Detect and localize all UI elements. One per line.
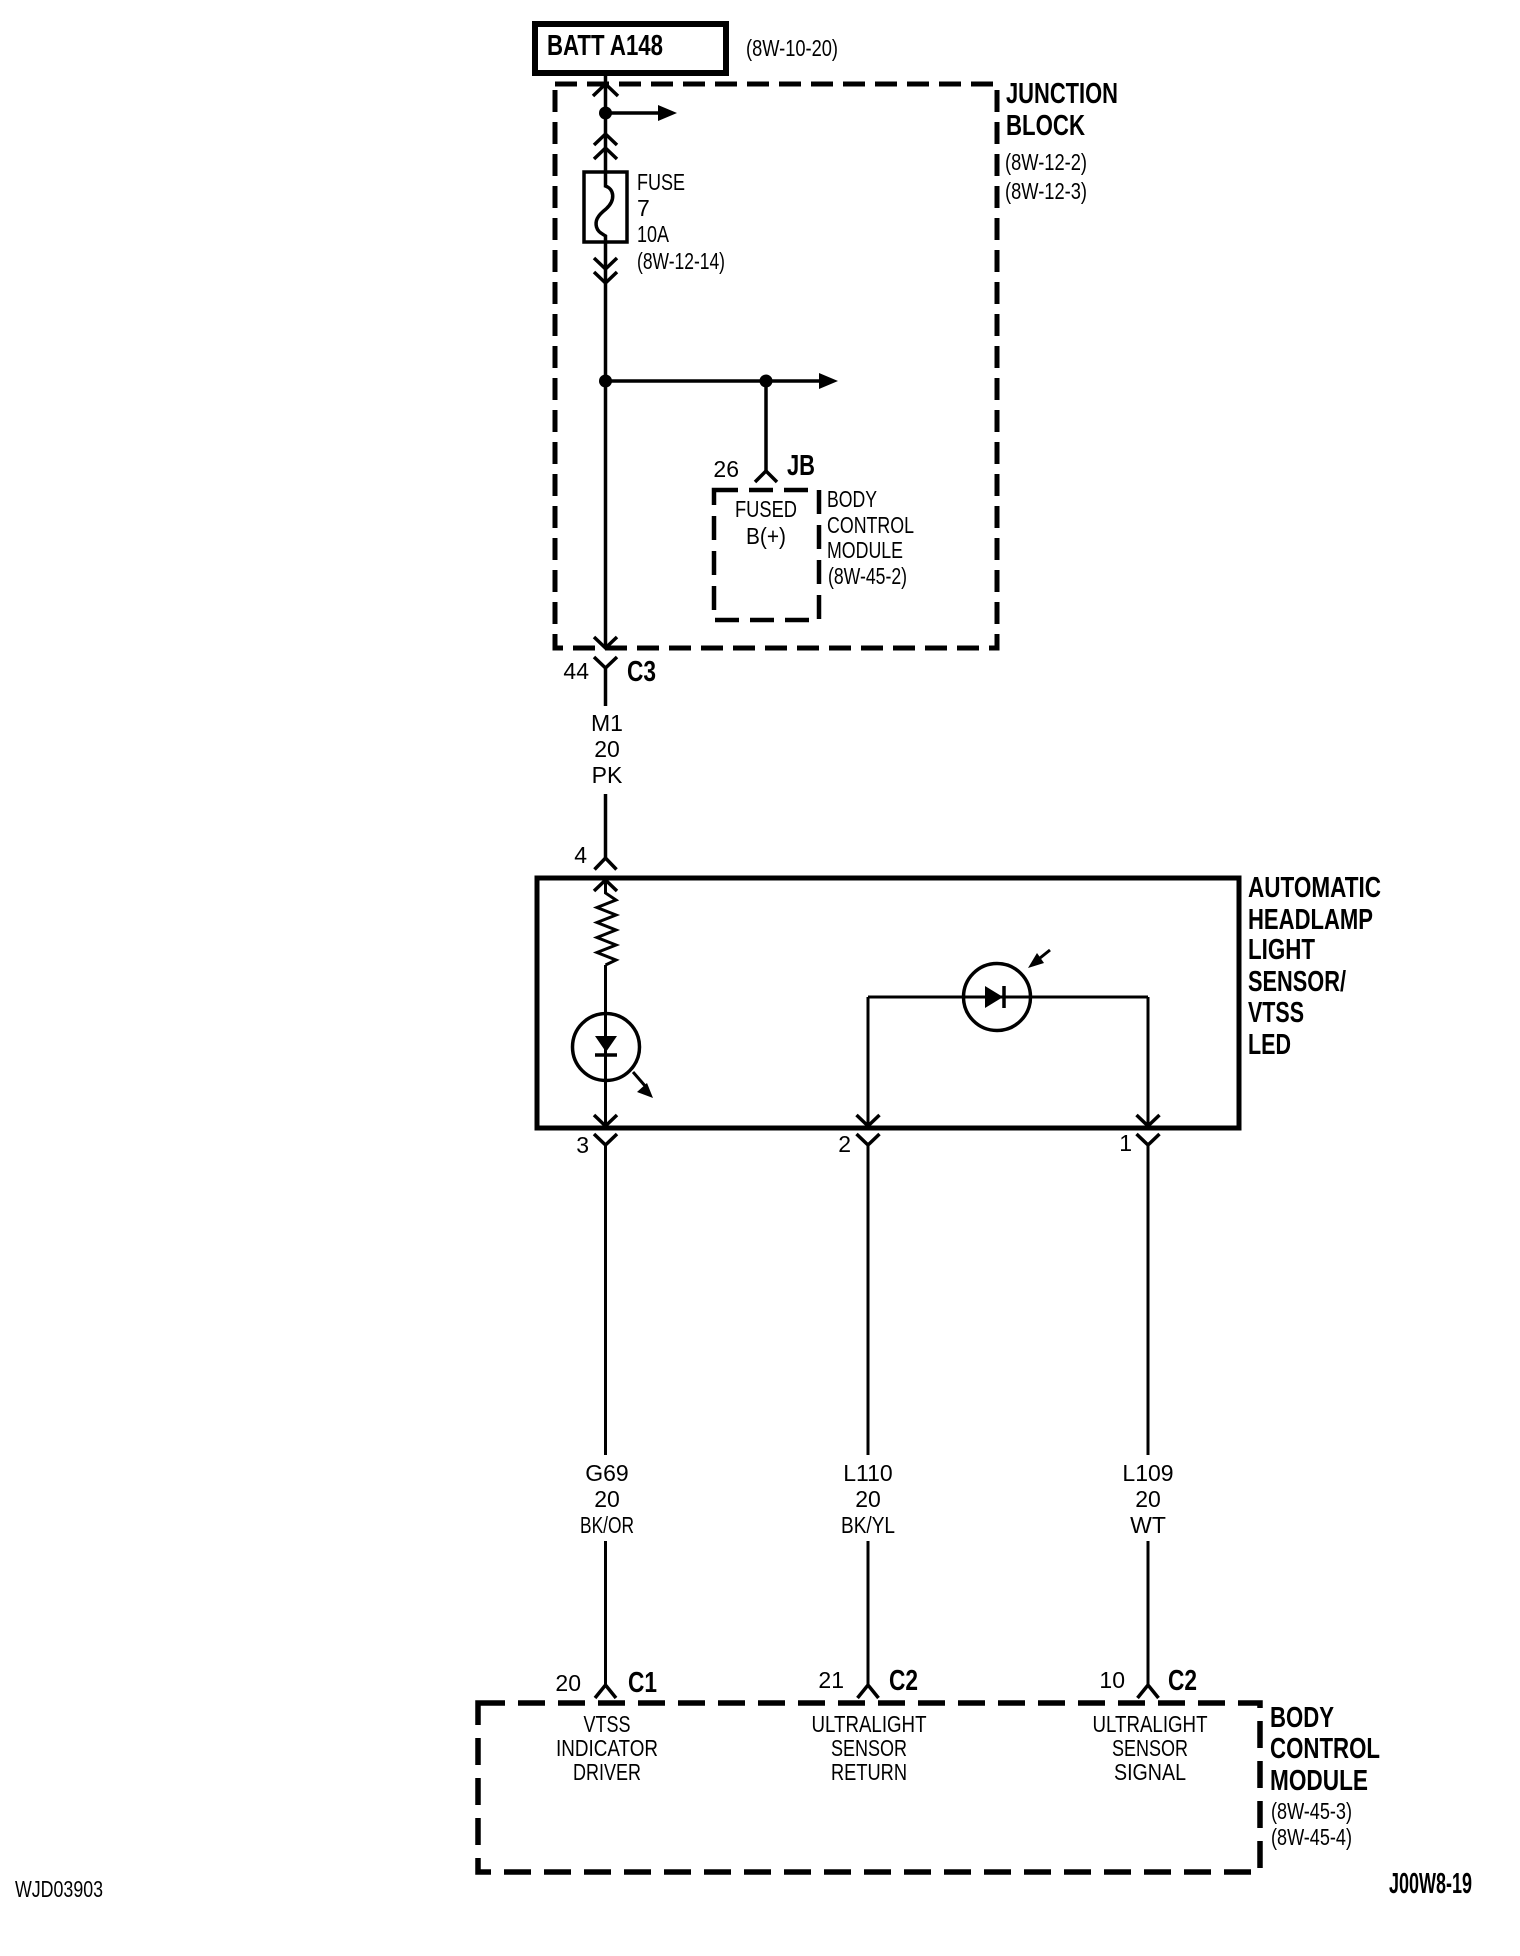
svg-text:M1: M1 [591, 710, 623, 736]
wire to BCM C1 [604, 1541, 607, 1685]
wire to BCM C2 pin 10 [1147, 1541, 1150, 1685]
in-line connector double chevron below fuse [594, 258, 617, 269]
svg-text:44: 44 [563, 658, 589, 684]
svg-text:20: 20 [594, 736, 620, 762]
splice node [599, 375, 612, 388]
fused B(+) dashed box (BCM) [714, 490, 819, 620]
svg-text:RETURN: RETURN [831, 1759, 907, 1785]
svg-text:20: 20 [555, 1670, 581, 1696]
svg-text:7: 7 [637, 195, 650, 221]
pin 2 connector fork [857, 1134, 880, 1145]
svg-text:C3: C3 [627, 656, 656, 688]
svg-text:ULTRALIGHT: ULTRALIGHT [812, 1711, 927, 1737]
svg-text:(8W-45-3): (8W-45-3) [1271, 1798, 1352, 1824]
wire segment to sensor pin 4 [604, 794, 608, 858]
svg-text:(8W-45-4): (8W-45-4) [1271, 1824, 1352, 1850]
svg-text:VTSS: VTSS [1248, 997, 1304, 1029]
connector C1 pin 20 fork [595, 1685, 616, 1698]
svg-text:PK: PK [592, 762, 623, 788]
terminal chevron at junction block entry [593, 84, 618, 96]
svg-text:VTSS: VTSS [584, 1711, 631, 1737]
wire from battery into junction block [604, 73, 608, 173]
svg-text:LED: LED [1248, 1029, 1291, 1061]
svg-text:26: 26 [713, 456, 739, 482]
svg-text:C1: C1 [628, 1667, 657, 1699]
branch node [760, 375, 773, 388]
svg-text:DRIVER: DRIVER [573, 1759, 641, 1785]
svg-text:10A: 10A [637, 221, 670, 247]
svg-text:CONTROL: CONTROL [1270, 1733, 1380, 1765]
svg-text:BATT A148: BATT A148 [547, 30, 663, 62]
resistor [597, 880, 616, 965]
wire from fuse down to splice [604, 242, 608, 648]
node (splice) below battery feed [599, 107, 612, 120]
arrow to other circuits (mid) [766, 379, 822, 383]
wire photodiode row [868, 996, 1148, 999]
svg-text:HEADLAMP: HEADLAMP [1248, 904, 1373, 936]
pin 1 exit arrowhead [1137, 1115, 1160, 1126]
svg-text:(8W-12-14): (8W-12-14) [637, 248, 725, 274]
svg-text:21: 21 [818, 1667, 844, 1693]
svg-text:10: 10 [1099, 1667, 1125, 1693]
pin 3 exit arrowhead [594, 1115, 617, 1126]
svg-text:INDICATOR: INDICATOR [556, 1735, 658, 1761]
svg-text:FUSED: FUSED [735, 496, 797, 522]
svg-text:SENSOR/: SENSOR/ [1248, 966, 1346, 998]
pin 2 exit arrowhead [857, 1115, 880, 1126]
fuse F7 10A [584, 172, 627, 242]
wire sensor return (pin 2 drop) [867, 997, 870, 1128]
wire to JB pin 26 [764, 381, 768, 471]
pin 3 connector fork [594, 1134, 617, 1145]
wire to BCM feed branch [606, 379, 767, 383]
svg-text:SENSOR: SENSOR [1112, 1735, 1188, 1761]
svg-text:3: 3 [576, 1132, 589, 1158]
connector C2 pin 10 fork [1138, 1685, 1159, 1698]
photodiode light sensor [964, 964, 1031, 1031]
wire sensor signal (pin 1 drop) [1147, 997, 1150, 1128]
svg-text:J00W8-19: J00W8-19 [1389, 1868, 1472, 1900]
wire resistor to LED [604, 965, 607, 1128]
wire to BCM C2 pin 21 [867, 1541, 870, 1685]
svg-text:B(+): B(+) [746, 523, 786, 549]
svg-text:L109: L109 [1122, 1460, 1173, 1486]
battery feed box BATT A148 [535, 24, 726, 73]
svg-text:20: 20 [1135, 1486, 1161, 1512]
svg-text:SENSOR: SENSOR [831, 1735, 907, 1761]
svg-text:2: 2 [838, 1131, 851, 1157]
photodiode incident light arrow [1040, 950, 1050, 958]
svg-text:FUSE: FUSE [637, 169, 685, 195]
svg-text:AUTOMATIC: AUTOMATIC [1248, 872, 1381, 904]
svg-text:CONTROL: CONTROL [827, 512, 914, 538]
LED (VTSS indicator) [573, 1014, 640, 1081]
automatic headlamp light sensor box [537, 878, 1239, 1128]
body control module dashed box [478, 1703, 1260, 1872]
pin 1 connector fork [1137, 1134, 1160, 1145]
svg-text:(8W-12-3): (8W-12-3) [1005, 178, 1087, 204]
svg-text:20: 20 [594, 1486, 620, 1512]
svg-text:JUNCTION: JUNCTION [1006, 78, 1118, 110]
svg-text:MODULE: MODULE [1270, 1765, 1368, 1797]
svg-text:L110: L110 [843, 1460, 892, 1486]
connector C3 fork [594, 657, 617, 668]
svg-text:ULTRALIGHT: ULTRALIGHT [1093, 1711, 1208, 1737]
svg-text:SIGNAL: SIGNAL [1114, 1759, 1186, 1785]
arrow to other circuits (top) [606, 111, 662, 115]
svg-text:LIGHT: LIGHT [1248, 934, 1315, 966]
svg-text:BK/YL: BK/YL [841, 1512, 895, 1538]
junction block dashed box [555, 84, 997, 648]
svg-text:1: 1 [1119, 1130, 1132, 1156]
svg-text:C2: C2 [1168, 1665, 1197, 1697]
LED emission arrow [633, 1072, 646, 1087]
connector C3 pin 44 arrowhead at junction block exit [594, 637, 617, 648]
svg-text:(8W-45-2): (8W-45-2) [828, 563, 907, 589]
svg-text:WJD03903: WJD03903 [15, 1876, 103, 1902]
connector fork pin 4 [595, 858, 617, 870]
svg-text:BK/OR: BK/OR [580, 1512, 634, 1538]
pin 4 entry arrowhead inside sensor box [594, 880, 617, 891]
svg-text:BODY: BODY [827, 486, 877, 512]
svg-text:BLOCK: BLOCK [1006, 110, 1085, 142]
svg-text:20: 20 [855, 1486, 881, 1512]
svg-text:G69: G69 [585, 1460, 628, 1486]
svg-text:4: 4 [574, 842, 587, 868]
svg-text:BODY: BODY [1270, 1702, 1334, 1734]
svg-text:C2: C2 [889, 1665, 918, 1697]
svg-text:JB: JB [787, 450, 815, 482]
svg-text:(8W-10-20): (8W-10-20) [746, 35, 838, 61]
svg-text:(8W-12-2): (8W-12-2) [1005, 149, 1087, 175]
connector C2 pin 21 fork [858, 1685, 879, 1698]
svg-text:WT: WT [1130, 1512, 1166, 1538]
in-line connector double chevron above fuse [594, 134, 617, 145]
svg-text:MODULE: MODULE [827, 537, 903, 563]
connector fork JB pin 26 [755, 471, 777, 482]
